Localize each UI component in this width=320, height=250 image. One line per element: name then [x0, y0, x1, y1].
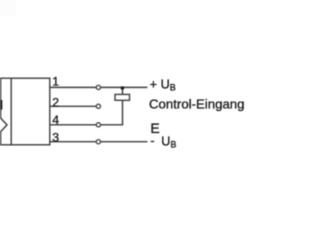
sensor box outline [1, 78, 50, 145]
terminal circle pin1 [96, 85, 100, 89]
sensor box divider [10, 78, 12, 145]
svg-text:Control-Eingang: Control-Eingang [149, 96, 245, 111]
terminal circle pin4 [96, 123, 100, 127]
wire pin1 box to terminal [50, 86, 96, 88]
sensor symbol: diamond (clipped) [0, 117, 7, 133]
svg-text:1: 1 [52, 75, 59, 89]
wire resistor to junction [122, 87, 124, 94]
junction dot on +UB line [121, 86, 125, 90]
svg-text:3: 3 [52, 130, 59, 144]
sensor symbol: filled square (clipped) [0, 100, 2, 110]
svg-text:2: 2 [52, 95, 59, 109]
terminal circle pin2 [96, 104, 100, 108]
wire pin4 box to terminal [50, 124, 96, 126]
wire pin2 box to terminal [50, 105, 96, 107]
svg-text:4: 4 [52, 113, 59, 127]
faint corner artifact [0, 0, 16, 15]
resistor R (pull-up) [115, 94, 130, 100]
wire pin4 terminal to resistor corner [101, 100, 123, 125]
wire pin3 terminal to -UB [101, 141, 148, 143]
wire pin3 box to terminal [50, 141, 96, 143]
svg-text:-: - [150, 134, 154, 148]
wire pin1 terminal to +UB [101, 86, 148, 88]
terminal circle pin3 [96, 140, 100, 144]
